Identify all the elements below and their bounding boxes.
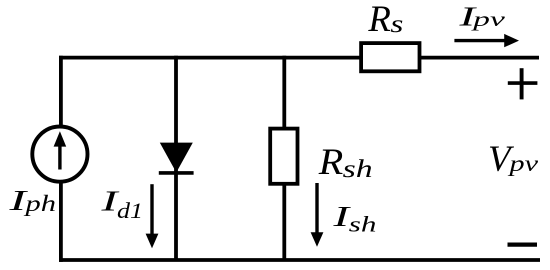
label R_sh — [318, 142, 373, 183]
diode D1 triangle — [160, 143, 193, 173]
wire shunt branch — [282, 56, 286, 260]
arrow I_d1 — [146, 184, 159, 248]
diode D1 cathode bar — [159, 171, 194, 175]
svg-text:sh: sh — [349, 212, 377, 237]
arrow I_pv — [454, 34, 519, 47]
label I_pv — [458, 2, 506, 32]
label I_ph — [8, 185, 56, 217]
svg-text:pv: pv — [507, 151, 539, 176]
label I_sh — [332, 201, 377, 237]
wire left branch — [59, 56, 63, 262]
arrow I_sh — [311, 183, 324, 247]
wire top rail — [59, 56, 539, 60]
label R_s — [367, 0, 403, 40]
wire diode branch — [174, 56, 178, 260]
svg-text:pv: pv — [470, 7, 506, 31]
current source I_ph circle — [32, 127, 87, 182]
resistor R_sh body — [270, 129, 297, 184]
label V_pv — [488, 139, 539, 180]
label I_d1 — [100, 186, 143, 224]
svg-text:d1: d1 — [117, 198, 143, 223]
svg-text:R: R — [367, 0, 390, 40]
minus terminal — [508, 243, 538, 247]
svg-text:R: R — [318, 142, 344, 183]
svg-text:s: s — [390, 11, 403, 38]
svg-text:ph: ph — [23, 191, 56, 216]
wire bottom rail — [59, 258, 540, 262]
svg-text:sh: sh — [343, 156, 373, 183]
current source arrow — [54, 131, 67, 169]
resistor R_s body — [361, 43, 419, 71]
plus terminal — [508, 68, 538, 99]
